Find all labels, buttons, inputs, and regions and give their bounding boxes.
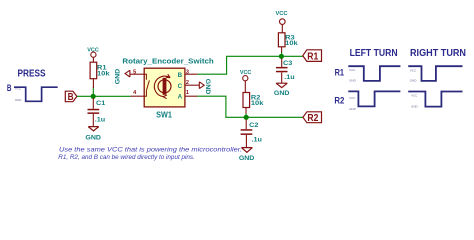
svg-text:GND: GND — [411, 105, 419, 109]
svg-text:C2: C2 — [249, 122, 259, 129]
svg-text:A: A — [178, 94, 183, 101]
svg-text:LEFT TURN: LEFT TURN — [350, 48, 398, 59]
svg-text:GND: GND — [15, 98, 22, 102]
svg-text:VCC: VCC — [349, 96, 356, 100]
svg-text:GND: GND — [349, 79, 357, 83]
svg-text:B: B — [7, 83, 12, 93]
svg-text:VCC: VCC — [410, 69, 417, 73]
svg-text:VCC: VCC — [276, 11, 288, 17]
svg-text:.1u: .1u — [252, 137, 263, 144]
svg-text:VCC: VCC — [240, 70, 252, 76]
svg-text:GND: GND — [239, 155, 255, 162]
svg-text:R2: R2 — [307, 113, 318, 124]
svg-text:GND: GND — [85, 134, 101, 141]
svg-text:GND: GND — [410, 79, 418, 83]
svg-text:C3: C3 — [283, 60, 293, 67]
svg-text:3: 3 — [186, 69, 189, 75]
svg-text:R2: R2 — [334, 96, 344, 107]
svg-text:GND: GND — [349, 107, 357, 111]
svg-text:VCC: VCC — [349, 68, 356, 72]
svg-text:10k: 10k — [251, 100, 264, 107]
svg-text:2: 2 — [186, 80, 189, 86]
svg-text:VCC: VCC — [411, 93, 418, 97]
svg-text:.1u: .1u — [95, 117, 106, 124]
svg-text:PRESS: PRESS — [18, 68, 46, 80]
svg-text:C1: C1 — [96, 100, 106, 107]
svg-text:B: B — [178, 72, 183, 79]
svg-text:1: 1 — [186, 90, 189, 96]
svg-text:RIGHT TURN: RIGHT TURN — [410, 48, 466, 59]
svg-text:10k: 10k — [285, 40, 298, 47]
svg-text:B: B — [68, 92, 74, 103]
svg-text:SW1: SW1 — [156, 110, 172, 119]
svg-text:.1u: .1u — [284, 74, 295, 81]
svg-text:R1: R1 — [307, 51, 318, 62]
svg-text:R1, R2, and B can be wired dir: R1, R2, and B can be wired directly to i… — [58, 154, 194, 161]
svg-text:C: C — [178, 83, 183, 90]
svg-text:Use the same VCC that is power: Use the same VCC that is powering the mi… — [59, 147, 242, 154]
svg-text:Rotary_Encoder_Switch: Rotary_Encoder_Switch — [122, 58, 213, 65]
svg-text:5: 5 — [133, 69, 136, 75]
svg-text:R1: R1 — [335, 67, 345, 78]
svg-text:GND: GND — [274, 90, 290, 97]
svg-text:GND: GND — [204, 79, 211, 95]
svg-text:GND: GND — [114, 68, 121, 84]
svg-text:10k: 10k — [97, 70, 110, 77]
